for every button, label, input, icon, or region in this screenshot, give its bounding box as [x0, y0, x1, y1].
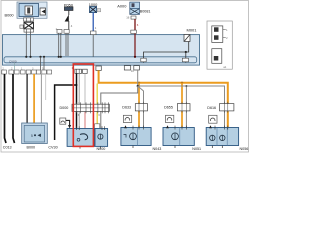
wire light gray [84, 73, 86, 112]
page frame [1, 1, 249, 153]
connector B000 bottom box [22, 123, 48, 144]
svg-text:5: 5 [31, 134, 33, 138]
A-box above N box E [209, 115, 217, 123]
node dot [134, 56, 136, 58]
pin ticks box A [76, 126, 78, 130]
node dot orange [138, 82, 140, 84]
wire dark to B000 [26, 74, 28, 124]
wire gray jog to N box B [101, 86, 138, 129]
svg-text:N043: N043 [153, 147, 162, 151]
pin ticks box D [166, 125, 169, 128]
yellow mini connector [95, 124, 100, 129]
connector entry 1000 [91, 31, 97, 35]
sub component upper [212, 26, 223, 43]
side tag of splice [20, 25, 23, 28]
exit connector gray right [134, 66, 140, 70]
node dot orange2 [181, 82, 183, 84]
wire gray in red box [78, 73, 80, 128]
bottom ticks boxes [132, 146, 134, 149]
wire gray distribution [138, 70, 225, 128]
wire gray drop D633 [138, 86, 144, 128]
component BSI stacked boxes [130, 2, 140, 8]
svg-text:16: 16 [126, 16, 130, 20]
connector under splice [24, 29, 34, 32]
pin ticks box C [124, 125, 127, 128]
component B000 outer box [17, 2, 47, 18]
connector entry BSI [131, 30, 137, 33]
wire 1000 blue [92, 13, 94, 31]
wire orange drop D633 [138, 83, 140, 128]
A-box above N box D [166, 115, 174, 122]
svg-text:A000: A000 [117, 4, 127, 9]
exit connector row [2, 70, 7, 74]
connector N box B [95, 129, 108, 147]
connector N box A [67, 129, 94, 147]
pin ticks box E [209, 125, 212, 128]
component B000 clamp icon [40, 8, 46, 15]
svg-text:CV30: CV30 [48, 146, 57, 150]
wire yellow down [96, 84, 98, 125]
node dot [185, 51, 187, 53]
wire gray drop D655 [185, 86, 187, 128]
svg-text:M001: M001 [187, 28, 198, 33]
connector N box C [121, 128, 151, 146]
wire into band from splice [25, 32, 27, 57]
node dot [58, 56, 60, 58]
component B000 battery box [19, 4, 39, 17]
svg-text:D616: D616 [207, 106, 216, 110]
wire orange drop D655 [181, 83, 183, 128]
svg-text:N056: N056 [240, 147, 249, 151]
exit connector orange [96, 66, 101, 70]
drop terminal mid [141, 58, 146, 62]
node dot [60, 56, 62, 58]
exit connector unused [124, 66, 130, 70]
right assembly box [207, 21, 232, 69]
node dot [43, 56, 45, 58]
splice X-box [24, 22, 34, 29]
red highlight rectangle [73, 64, 93, 146]
junction strip CV00 [4, 57, 197, 63]
wire orange to B000 [33, 74, 35, 124]
svg-text:B000: B000 [5, 13, 15, 18]
wire gray short [45, 74, 47, 100]
drop terminal right [185, 52, 187, 58]
fuse glyph in band [184, 35, 190, 42]
wire maroon BSI [134, 19, 136, 30]
shield S symbol [60, 118, 66, 124]
wire black jog to CV30 [55, 85, 77, 140]
component B000 inner cell [25, 6, 33, 15]
sub component lower [212, 49, 222, 64]
node black T [76, 84, 78, 86]
svg-text:N000: N000 [97, 147, 106, 151]
wire black C013 a [5, 74, 7, 143]
svg-text:CV00: CV00 [9, 60, 17, 64]
node dot [39, 56, 41, 58]
connector under B000 [23, 18, 33, 21]
wire from dots to exits [40, 57, 42, 70]
node dot [25, 56, 27, 58]
svg-text:D655: D655 [164, 106, 173, 110]
svg-text:B0081: B0081 [140, 9, 151, 13]
svg-text:C013: C013 [3, 146, 12, 150]
A-box above N box C [123, 115, 131, 122]
svg-text:N051: N051 [192, 147, 201, 151]
component 1000 box [90, 7, 97, 13]
svg-text:B000: B000 [27, 146, 36, 150]
svg-text:D633: D633 [122, 106, 131, 110]
wire from P050 [68, 11, 70, 16]
bus line in band right [144, 42, 189, 59]
svg-text:D000: D000 [60, 106, 69, 110]
wire orange main [99, 70, 228, 127]
wire black main down [76, 73, 78, 128]
switch contact [65, 15, 69, 22]
wire black C013 b [13, 74, 15, 143]
wire gray to B000 2 [40, 74, 42, 124]
pin ticks box B [101, 126, 103, 130]
exit connector 2 red box [83, 69, 88, 73]
fuse box band M001 [3, 35, 200, 66]
wires inside band from P050 [58, 33, 60, 57]
band bottom exit stub left [14, 63, 16, 70]
connector N box E [206, 128, 238, 146]
component P050 box [64, 7, 73, 11]
node dot [29, 56, 31, 58]
connector N box D [163, 128, 194, 146]
